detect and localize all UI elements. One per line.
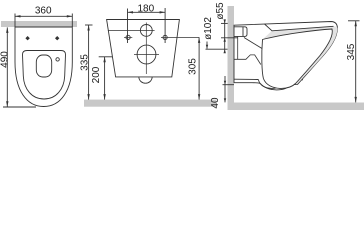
svg-text:ø55: ø55	[215, 2, 226, 20]
svg-text:305: 305	[188, 58, 199, 75]
svg-text:ø102: ø102	[203, 17, 214, 40]
svg-text:345: 345	[346, 43, 357, 60]
svg-text:360: 360	[35, 6, 52, 17]
svg-text:490: 490	[0, 51, 10, 68]
svg-text:200: 200	[91, 66, 102, 83]
svg-text:40: 40	[210, 97, 221, 109]
svg-text:335: 335	[79, 54, 90, 71]
svg-text:180: 180	[137, 4, 154, 15]
